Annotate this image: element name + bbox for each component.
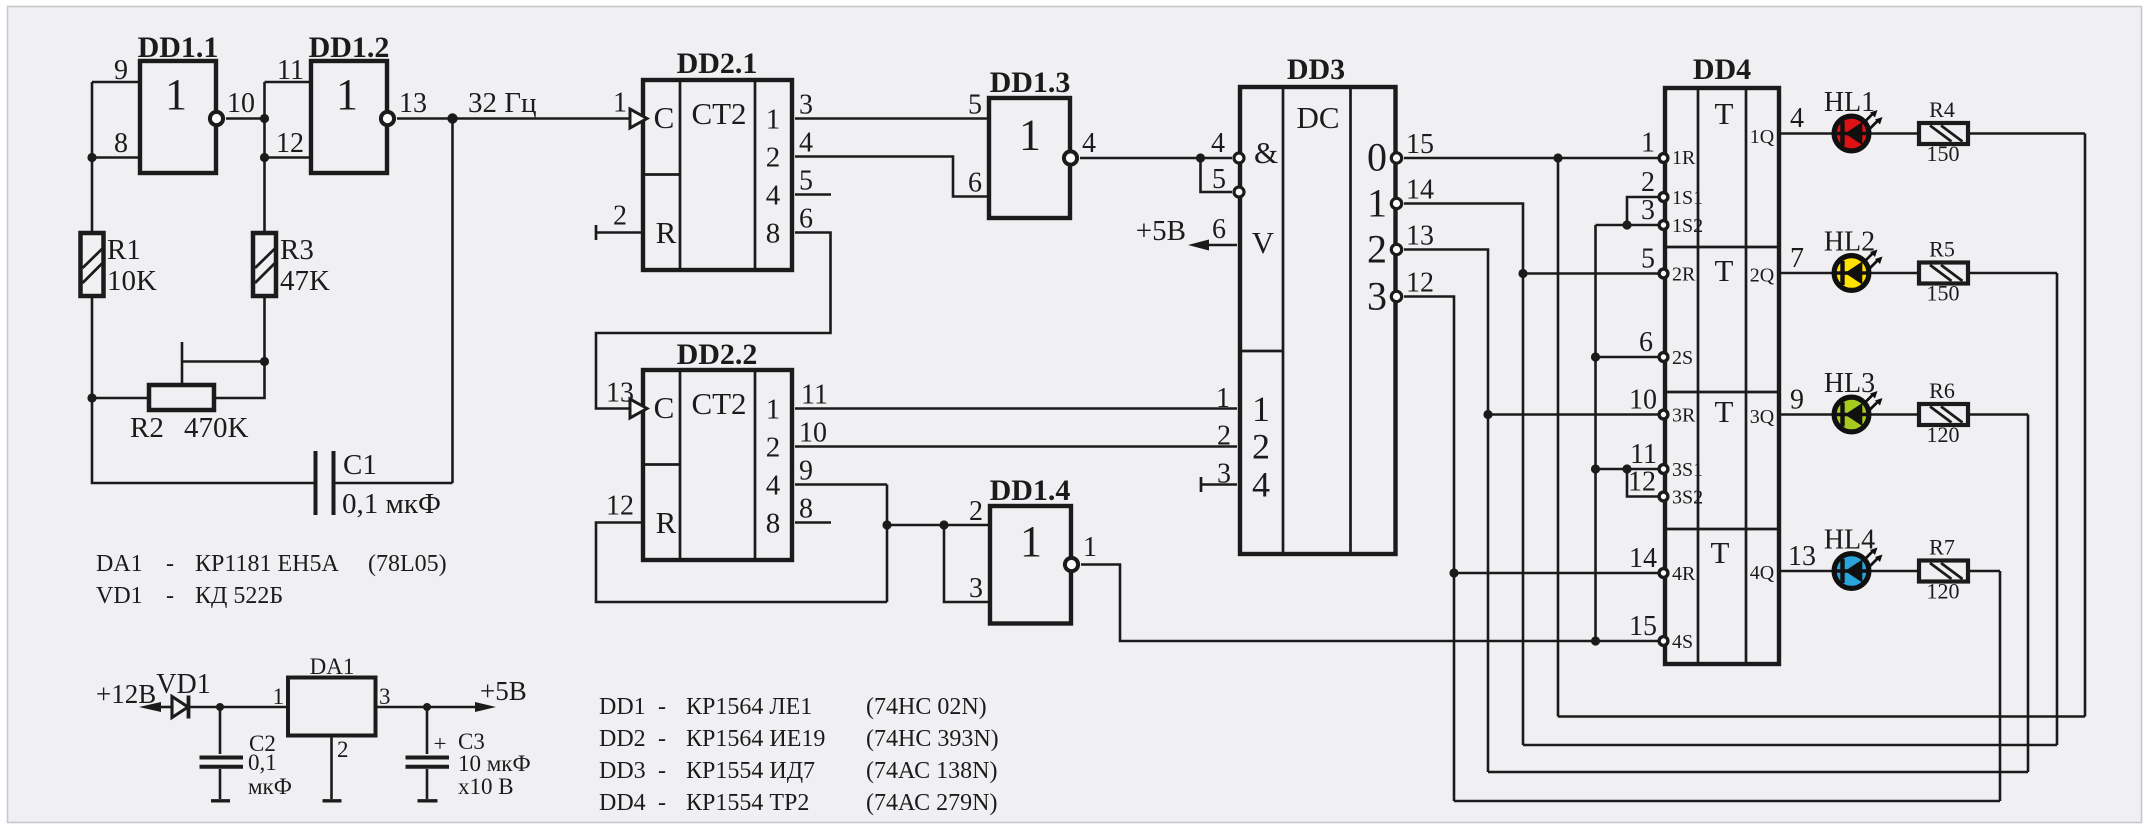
node 3S1 chain: [1591, 464, 1600, 473]
svg-text:1: 1: [1216, 383, 1230, 414]
svg-text:0: 0: [1367, 135, 1387, 180]
output bubble 1: [1391, 198, 1401, 208]
wire down to C1 rail: [92, 398, 314, 483]
svg-text:11: 11: [1630, 439, 1657, 470]
svg-text:6: 6: [1639, 327, 1653, 358]
svg-text:3S2: 3S2: [1672, 487, 1703, 509]
wire DA1 pin3 output: [376, 706, 480, 709]
potentiometer R2: [130, 342, 265, 444]
svg-text:2: 2: [1641, 167, 1655, 198]
svg-text:C: C: [654, 100, 675, 135]
pin 9 output wire DD2.2: [795, 483, 887, 486]
wire pin8 DD1.1: [92, 156, 138, 159]
node 3R: [1483, 410, 1492, 419]
wire R2 right terminal: [214, 296, 265, 398]
svg-text:DD3-КР1554 ИД7(74АС 138N): DD3-КР1554 ИД7(74АС 138N): [599, 758, 997, 784]
wire 3S1: [1596, 468, 1660, 471]
wire DD1.3 output to DD3: [1080, 157, 1201, 160]
wire out10: [226, 117, 265, 120]
svg-text:1: 1: [336, 70, 358, 119]
svg-text:x10 В: x10 В: [458, 774, 514, 799]
svg-text:HL2: HL2: [1824, 227, 1875, 258]
wire 32Hz to DD2.1 clock: [453, 117, 631, 120]
wire pin9 vertical: [886, 485, 889, 603]
node R2 left: [87, 393, 96, 402]
wire 3S2 bracket: [1627, 469, 1659, 497]
svg-text:10: 10: [227, 88, 255, 119]
svg-text:10: 10: [1629, 385, 1657, 416]
svg-text:8: 8: [766, 218, 781, 250]
wire 2R input: [1523, 272, 1659, 275]
pin 10 output wire DD2.2 to DD3 addr2: [795, 445, 1237, 448]
svg-text:T: T: [1715, 96, 1734, 131]
node S-chain on 4S wire: [1591, 636, 1600, 645]
wire 1S2: [1596, 224, 1660, 227]
pin 8 stub DD2.2: [795, 521, 831, 524]
wire left vertical node R1: [91, 82, 94, 233]
svg-text:4: 4: [1252, 465, 1270, 505]
svg-text:мкФ: мкФ: [248, 774, 292, 799]
svg-text:C: C: [654, 390, 675, 425]
wire bottom loop R7: [1454, 800, 2000, 803]
svg-text:3: 3: [379, 684, 391, 709]
pin 5 stub DD2.1: [795, 193, 831, 196]
svg-text:0,1 мкФ: 0,1 мкФ: [342, 488, 441, 520]
wire R stub DD2.1 with tick: [596, 231, 643, 234]
svg-text:8: 8: [114, 128, 128, 159]
svg-text:1: 1: [613, 88, 627, 119]
svg-text:6: 6: [968, 168, 982, 199]
svg-text:R3: R3: [280, 234, 314, 266]
svg-text:VD1: VD1: [156, 669, 210, 700]
svg-text:5: 5: [799, 166, 813, 197]
svg-text:3: 3: [1217, 459, 1231, 490]
svg-text:1: 1: [766, 394, 781, 426]
node DD3 input bracket: [1196, 153, 1205, 162]
svg-text:10 мкФ: 10 мкФ: [458, 751, 531, 776]
svg-text:R4: R4: [1929, 97, 1955, 122]
svg-text:4: 4: [799, 128, 813, 159]
wire right vertical R5: [2056, 273, 2059, 745]
svg-text:5: 5: [968, 90, 982, 121]
svg-text:1S1: 1S1: [1672, 187, 1703, 209]
node 32Hz: [447, 113, 457, 123]
svg-text:T: T: [1711, 535, 1730, 570]
svg-text:14: 14: [1629, 543, 1657, 574]
svg-text:11: 11: [277, 55, 304, 86]
svg-text:150: 150: [1927, 281, 1960, 306]
svg-text:2: 2: [766, 432, 781, 464]
node DD1.4 input B: [939, 520, 948, 529]
wire node to R2: [92, 397, 149, 400]
svg-text:4S: 4S: [1672, 631, 1693, 653]
+5V arrow: [475, 702, 496, 712]
svg-text:HL4: HL4: [1824, 525, 1875, 556]
svg-text:R5: R5: [1929, 237, 1955, 262]
svg-text:1S2: 1S2: [1672, 215, 1703, 237]
svg-text:9: 9: [799, 456, 813, 487]
svg-text:DC: DC: [1296, 100, 1339, 135]
svg-text:R7: R7: [1929, 535, 1955, 560]
input bubble pin5: [1234, 187, 1244, 197]
svg-text:12: 12: [276, 128, 304, 159]
node R2 wiper / R3 bottom: [260, 357, 269, 366]
wire 2Q row: [1781, 272, 2057, 275]
node pin8/R1: [87, 153, 96, 162]
svg-text:3: 3: [969, 573, 983, 604]
svg-text:CT2: CT2: [691, 96, 746, 131]
input bubble pin4: [1234, 153, 1244, 163]
wire R1 bottom: [91, 296, 94, 398]
svg-text:2: 2: [1367, 227, 1387, 272]
wire C1 right to feedback vertical: [336, 482, 453, 485]
wire 1S1 bracket: [1627, 197, 1659, 225]
resistor R3: [253, 233, 330, 297]
svg-text:1: 1: [1020, 517, 1042, 566]
wire 2S: [1596, 356, 1660, 359]
svg-text:R6: R6: [1929, 378, 1955, 403]
svg-text:8: 8: [766, 508, 781, 540]
svg-text:DD2.1: DD2.1: [677, 47, 758, 80]
svg-text:1: 1: [273, 684, 285, 709]
svg-text:DD1.3: DD1.3: [990, 66, 1071, 99]
svg-text:3: 3: [1367, 274, 1387, 319]
svg-text:4R: 4R: [1672, 563, 1696, 585]
svg-text:DD1.4: DD1.4: [990, 474, 1071, 507]
svg-text:4Q: 4Q: [1750, 562, 1775, 584]
resistor R7: [1919, 535, 1968, 604]
svg-text:2: 2: [766, 142, 781, 174]
svg-text:2R: 2R: [1672, 264, 1696, 286]
wire right vertical R6: [2027, 415, 2030, 773]
gate DD1.1: [138, 31, 224, 173]
svg-text:5: 5: [1212, 164, 1226, 195]
svg-text:4: 4: [1211, 128, 1225, 159]
+5V supply arrow pin6: [1205, 244, 1237, 247]
output bubble 2: [1391, 244, 1401, 254]
output bubble 0: [1391, 153, 1401, 163]
svg-text:32 Гц: 32 Гц: [468, 87, 537, 119]
svg-text:13: 13: [1406, 221, 1434, 252]
svg-text:+5В: +5В: [1136, 215, 1186, 247]
svg-text:1: 1: [1641, 128, 1655, 159]
svg-text:2: 2: [969, 496, 983, 527]
svg-text:1: 1: [766, 104, 781, 136]
wire to DD1.4 pin3: [944, 525, 990, 602]
svg-text:C1: C1: [343, 449, 377, 481]
node C2: [216, 703, 224, 711]
wire 3Q row: [1781, 413, 2028, 416]
pin 6 wire DD2.1 down to DD2.2 clock: [596, 233, 831, 409]
resistor R1: [81, 233, 158, 297]
wire out13 to 32Hz node: [397, 117, 453, 120]
svg-text:DD3: DD3: [1287, 53, 1345, 86]
svg-text:T: T: [1715, 253, 1734, 288]
svg-text:DD2-КР1564 ИЕ19(74HC 393N): DD2-КР1564 ИЕ19(74HC 393N): [599, 726, 999, 752]
svg-text:3S1: 3S1: [1672, 459, 1703, 481]
wire 1Q row: [1781, 132, 2085, 135]
svg-text:+12В: +12В: [96, 679, 156, 709]
svg-text:1: 1: [165, 70, 187, 119]
node 1S bracket: [1622, 220, 1631, 229]
gate DD1.2: [309, 31, 395, 173]
svg-text:2: 2: [337, 737, 349, 762]
svg-text:1: 1: [1367, 181, 1387, 226]
wire node to DD1.4 pin2: [887, 524, 990, 527]
wire out13: [1404, 250, 1488, 773]
svg-text:3: 3: [1641, 195, 1655, 226]
LED HL1: [1824, 87, 1883, 151]
svg-text:5: 5: [1641, 244, 1655, 275]
svg-text:2: 2: [1252, 427, 1270, 467]
svg-text:HL1: HL1: [1824, 87, 1875, 118]
svg-text:1: 1: [1083, 532, 1097, 563]
svg-text:12: 12: [1628, 467, 1656, 498]
svg-text:13: 13: [399, 88, 427, 119]
svg-text:DD1-КР1564 ЛЕ1(74HC 02N): DD1-КР1564 ЛЕ1(74HC 02N): [599, 694, 987, 720]
wire feedback vertical to C1: [451, 119, 454, 484]
svg-text:1R: 1R: [1672, 147, 1696, 169]
wire feedback vertical R4: [1557, 158, 1560, 717]
svg-text:10: 10: [799, 418, 827, 449]
capacitor C3 polarized: [406, 707, 531, 801]
wire bottom loop R5: [1523, 744, 2057, 747]
svg-text:4: 4: [766, 470, 781, 502]
svg-text:3Q: 3Q: [1750, 406, 1775, 428]
node C3: [423, 703, 431, 711]
svg-text:1Q: 1Q: [1750, 126, 1775, 148]
svg-text:1: 1: [1252, 389, 1270, 429]
svg-text:120: 120: [1927, 579, 1960, 604]
node feedback R4: [1553, 153, 1562, 162]
svg-text:12: 12: [606, 491, 634, 522]
svg-text:+: +: [434, 731, 447, 756]
resistor R6: [1919, 378, 1968, 447]
wire 4R input: [1454, 572, 1659, 575]
wire out14: [1404, 204, 1523, 746]
node 4R: [1449, 568, 1458, 577]
output bubble 3: [1391, 291, 1401, 301]
capacitor C1: [316, 449, 441, 520]
wire bottom loop R4: [1558, 715, 2085, 718]
svg-text:2: 2: [613, 201, 627, 232]
svg-text:13: 13: [1788, 541, 1816, 572]
svg-text:4: 4: [766, 180, 781, 212]
wire right vertical R4: [2084, 134, 2087, 717]
wire pin12 DD1.2: [265, 156, 312, 159]
wire pin9 DD1.1: [92, 81, 138, 84]
wire right vertical R7: [1999, 571, 2002, 801]
svg-text:&: &: [1254, 135, 1278, 170]
pin 4 output wire DD2.1 to DD1.3 pin6: [795, 157, 987, 197]
svg-text:15: 15: [1406, 129, 1434, 160]
svg-text:HL3: HL3: [1824, 368, 1875, 399]
svg-text:8: 8: [799, 494, 813, 525]
svg-text:CT2: CT2: [691, 386, 746, 421]
addr pin3 stub with tick: [1201, 483, 1237, 486]
svg-text:15: 15: [1629, 611, 1657, 642]
capacitor C2: [200, 707, 292, 801]
svg-text:2: 2: [1217, 421, 1231, 452]
svg-text:DD4: DD4: [1693, 53, 1751, 86]
node 2R: [1518, 269, 1527, 278]
svg-text:150: 150: [1927, 141, 1960, 166]
pin 3 output wire DD2.1 to DD1.3: [795, 117, 987, 120]
wire 3R input: [1488, 413, 1659, 416]
svg-text:3R: 3R: [1672, 405, 1696, 427]
node DD1.4 input A: [882, 520, 891, 529]
svg-text:+5В: +5В: [480, 676, 527, 706]
svg-text:R: R: [656, 505, 677, 540]
LED HL2: [1824, 227, 1883, 291]
svg-text:9: 9: [114, 55, 128, 86]
svg-text:47K: 47K: [280, 265, 330, 297]
wire 4Q row: [1781, 570, 2000, 573]
svg-text:2Q: 2Q: [1750, 265, 1775, 287]
svg-text:9: 9: [1790, 385, 1804, 416]
resistor R4: [1919, 97, 1968, 166]
node pin12: [260, 153, 269, 162]
wire node to DA1 pin1: [220, 706, 288, 709]
LED HL3: [1824, 368, 1883, 432]
pin bubbles DD4 left: [1659, 154, 1668, 163]
svg-text:DD4-КР1554 ТР2(74АС 279N): DD4-КР1554 ТР2(74АС 279N): [599, 790, 997, 816]
wire pin11 DD1.2: [265, 81, 312, 84]
node out10: [260, 114, 269, 123]
wire R loop DD2.2 pin12: [596, 523, 887, 603]
node 2S: [1591, 352, 1600, 361]
LED HL4: [1824, 525, 1883, 589]
svg-text:13: 13: [606, 378, 634, 409]
pin 11 output wire DD2.2 to DD3 addr1: [795, 407, 1237, 410]
wire out15 to DD4 1R: [1404, 157, 1659, 160]
wire DD1.4 output to 4S line: [1081, 565, 1659, 642]
svg-text:R1: R1: [107, 234, 141, 266]
node 3S1 bracket: [1622, 464, 1631, 473]
DA1 pin2 ground stub: [330, 736, 333, 800]
regulator DA1: [288, 654, 376, 736]
wire bottom loop R6: [1488, 771, 2028, 774]
svg-text:120: 120: [1927, 422, 1960, 447]
svg-text:6: 6: [1212, 214, 1226, 245]
svg-text:10K: 10K: [107, 265, 157, 297]
svg-text:DD2.2: DD2.2: [677, 338, 758, 371]
wire out12: [1404, 297, 1454, 802]
svg-text:12: 12: [1406, 268, 1434, 299]
wire S chain vertical: [1594, 225, 1597, 641]
diode VD1: [156, 669, 220, 719]
wire R3 top vertical to gate inputs: [263, 82, 266, 233]
svg-text:T: T: [1715, 394, 1734, 429]
svg-text:4: 4: [1082, 128, 1096, 159]
svg-text:R: R: [656, 215, 677, 250]
svg-text:R2470K: R2470K: [130, 412, 249, 444]
svg-text:DA1: DA1: [310, 654, 355, 679]
svg-text:6: 6: [799, 204, 813, 235]
resistor R5: [1919, 237, 1968, 306]
svg-text:V: V: [1252, 225, 1275, 260]
svg-text:1: 1: [1019, 111, 1041, 160]
svg-text:2S: 2S: [1672, 347, 1693, 369]
svg-text:7: 7: [1790, 243, 1804, 274]
wire bracket pin4/pin5: [1201, 157, 1233, 160]
svg-text:3: 3: [799, 90, 813, 121]
svg-text:4: 4: [1790, 103, 1804, 134]
svg-text:0,1: 0,1: [248, 750, 277, 775]
svg-text:11: 11: [801, 380, 828, 411]
svg-text:14: 14: [1406, 175, 1434, 206]
